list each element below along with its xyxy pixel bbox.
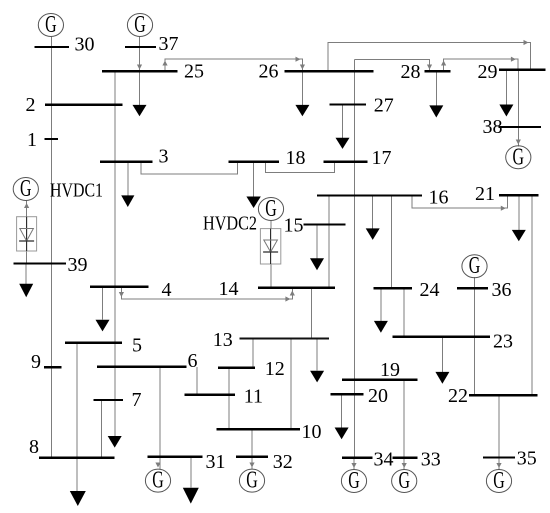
svg-text:32: 32 <box>273 451 293 473</box>
svg-text:13: 13 <box>213 329 233 351</box>
svg-text:39: 39 <box>68 254 88 276</box>
svg-text:21: 21 <box>475 183 495 205</box>
svg-text:16: 16 <box>429 187 449 209</box>
svg-text:5: 5 <box>132 335 142 357</box>
svg-text:G: G <box>45 12 57 38</box>
svg-text:29: 29 <box>478 61 498 83</box>
svg-text:12: 12 <box>265 358 285 380</box>
svg-text:37: 37 <box>159 33 179 55</box>
svg-text:17: 17 <box>372 147 392 169</box>
svg-text:6: 6 <box>188 350 198 372</box>
svg-text:25: 25 <box>184 61 204 83</box>
svg-text:26: 26 <box>259 61 279 83</box>
svg-text:G: G <box>348 468 360 494</box>
svg-text:15: 15 <box>284 215 304 237</box>
svg-text:8: 8 <box>29 436 39 458</box>
svg-text:34: 34 <box>374 449 394 471</box>
svg-text:G: G <box>493 468 505 494</box>
svg-text:HVDC1: HVDC1 <box>50 180 103 202</box>
svg-text:35: 35 <box>517 448 537 470</box>
svg-text:14: 14 <box>219 278 239 300</box>
svg-text:31: 31 <box>206 451 226 473</box>
svg-text:HVDC2: HVDC2 <box>203 213 257 235</box>
svg-text:23: 23 <box>493 331 513 353</box>
svg-text:20: 20 <box>368 385 388 407</box>
svg-text:38: 38 <box>483 116 503 138</box>
svg-text:7: 7 <box>132 389 142 411</box>
svg-text:2: 2 <box>26 94 36 116</box>
svg-text:18: 18 <box>286 147 306 169</box>
svg-text:G: G <box>246 468 258 494</box>
svg-text:4: 4 <box>162 279 172 301</box>
svg-text:36: 36 <box>492 279 512 301</box>
svg-text:G: G <box>265 196 277 222</box>
svg-text:30: 30 <box>75 34 95 56</box>
svg-text:22: 22 <box>448 385 468 407</box>
svg-text:33: 33 <box>421 449 441 471</box>
svg-text:G: G <box>513 144 525 170</box>
svg-text:27: 27 <box>374 94 394 116</box>
svg-text:3: 3 <box>159 146 169 168</box>
svg-text:G: G <box>152 468 164 494</box>
svg-text:28: 28 <box>401 61 421 83</box>
svg-text:G: G <box>20 176 32 202</box>
svg-text:G: G <box>469 253 481 279</box>
svg-text:19: 19 <box>380 359 400 381</box>
svg-text:1: 1 <box>27 129 37 151</box>
svg-text:9: 9 <box>31 351 41 373</box>
svg-text:24: 24 <box>420 279 440 301</box>
svg-text:10: 10 <box>302 421 322 443</box>
svg-text:G: G <box>134 12 146 38</box>
svg-text:11: 11 <box>244 386 263 408</box>
svg-text:G: G <box>398 468 410 494</box>
